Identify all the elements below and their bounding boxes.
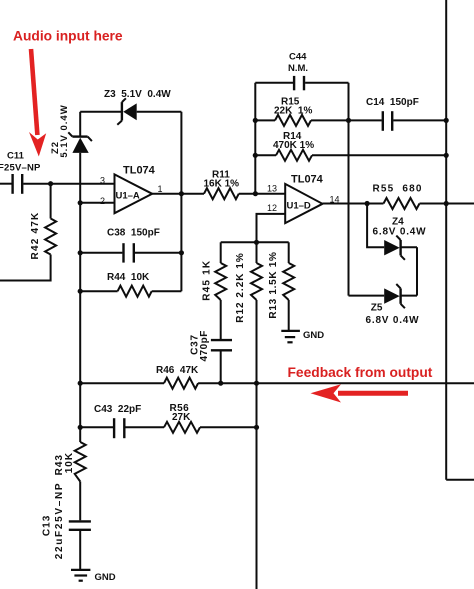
- wire pin1 output: [152, 193, 204, 195]
- svg-text:C38 150pF: C38 150pF: [107, 228, 160, 239]
- node R15 right: [346, 118, 351, 123]
- node R14 right: [444, 153, 449, 158]
- node R46 left: [78, 381, 83, 386]
- svg-text:Audio input here: Audio input here: [13, 29, 123, 44]
- svg-text:TL074: TL074: [123, 165, 156, 177]
- resistor R13: [268, 242, 294, 331]
- left bus main: [79, 153, 81, 442]
- red annotation: Feedback from output: [288, 365, 433, 380]
- svg-text:22K 1%: 22K 1%: [274, 106, 312, 117]
- svg-text:22uF25V–NP: 22uF25V–NP: [54, 482, 65, 560]
- zener Z2: [50, 104, 92, 157]
- svg-text:16K 1%: 16K 1%: [204, 179, 240, 190]
- svg-text:C13: C13: [41, 515, 52, 536]
- capacitor C11: [0, 151, 41, 194]
- svg-text:U1–A: U1–A: [116, 191, 140, 202]
- node R44 left: [78, 289, 83, 294]
- svg-text:470pF: 470pF: [199, 330, 210, 361]
- wire R43 to C13: [79, 482, 81, 521]
- right bus bottom stub: [446, 479, 474, 481]
- node C43 left: [78, 425, 83, 430]
- resistor R55: [373, 184, 474, 210]
- resistor R15: [255, 97, 348, 126]
- bus B vertical (pin12 node) lower: [256, 300, 258, 589]
- resistor R42: [30, 184, 56, 260]
- wire C11 to pin3: [23, 183, 114, 185]
- svg-text:TL074: TL074: [291, 174, 324, 186]
- svg-text:C43 22pF: C43 22pF: [94, 404, 141, 415]
- node pin13 / bus A: [253, 191, 258, 196]
- svg-text:R42 47K: R42 47K: [30, 212, 41, 260]
- wire pin2 from bus: [80, 202, 114, 204]
- node R46/bus B: [254, 381, 259, 386]
- svg-text:Feedback from output: Feedback from output: [288, 365, 433, 380]
- node C14 right: [444, 118, 449, 123]
- node C11/R42 junction: [48, 181, 53, 186]
- left bus (inverting node) upper: [79, 112, 81, 137]
- node output/feedback junction: [179, 191, 184, 196]
- wire C11 input row left: [0, 183, 12, 185]
- svg-text:6.8V 0.4W: 6.8V 0.4W: [366, 315, 420, 326]
- node pin2 on bus: [78, 200, 83, 205]
- node rail/pin12: [254, 240, 259, 245]
- top loop to output vertical: [137, 111, 182, 113]
- svg-text:R45 1K: R45 1K: [201, 260, 212, 301]
- svg-text:10K: 10K: [64, 452, 75, 473]
- right bus vertical: [445, 0, 447, 480]
- resistor R44: [80, 272, 181, 297]
- node C37 bottom: [218, 381, 223, 386]
- node pin14/Z4: [365, 201, 370, 206]
- node R55 right: [444, 201, 449, 206]
- resistor R12: [235, 252, 262, 322]
- resistor R11: [204, 170, 240, 200]
- resistor R56: [125, 403, 256, 433]
- resistor R45: [201, 242, 226, 339]
- capacitor C44: [255, 52, 348, 91]
- wire Z4-Z5 link: [416, 247, 418, 295]
- svg-text:3: 3: [100, 176, 105, 186]
- node R56/bus B: [254, 425, 259, 430]
- node R14 left: [253, 153, 258, 158]
- svg-text:12: 12: [267, 203, 277, 213]
- svg-text:R44 10K: R44 10K: [107, 272, 150, 283]
- red arrow to input: [29, 49, 46, 157]
- node C38 right: [179, 250, 184, 255]
- wire R42 bottom to left edge: [0, 255, 51, 281]
- capacitor C43: [80, 404, 141, 438]
- node C38 left: [78, 250, 83, 255]
- svg-text:470K 1%: 470K 1%: [273, 140, 314, 151]
- top clamp loop wire: [80, 111, 122, 113]
- svg-text:Z5: Z5: [371, 303, 383, 314]
- middle bus vertical: [348, 83, 350, 296]
- svg-text:R55 680: R55 680: [373, 184, 423, 195]
- svg-text:GND: GND: [95, 572, 116, 583]
- red arrow feedback: [311, 384, 409, 402]
- svg-text:GND: GND: [303, 330, 324, 341]
- bus A vertical (pin13 node): [254, 83, 256, 194]
- resistor R43: [54, 442, 86, 482]
- wire pin12: [257, 214, 286, 263]
- svg-text:C14 150pF: C14 150pF: [366, 97, 419, 108]
- zener Z5: [349, 284, 420, 326]
- zener Z4: [367, 204, 426, 260]
- svg-text:uF25V–NP: uF25V–NP: [0, 163, 41, 174]
- svg-text:R12 2.2K 1%: R12 2.2K 1%: [235, 252, 246, 322]
- svg-text:13: 13: [267, 184, 277, 194]
- svg-text:2: 2: [100, 196, 105, 206]
- capacitor C14: [349, 97, 447, 131]
- capacitor C37: [189, 330, 232, 383]
- rail to R45/R13: [221, 241, 289, 243]
- wire pin14 output: [323, 203, 384, 205]
- svg-text:C11: C11: [7, 151, 25, 162]
- svg-text:Z3 5.1V 0.4W: Z3 5.1V 0.4W: [104, 89, 171, 100]
- red annotation: Audio input here: [13, 29, 123, 44]
- output vertical wire: [180, 112, 182, 291]
- resistor R14: [255, 131, 446, 161]
- svg-text:R13 1.5K 1%: R13 1.5K 1%: [268, 251, 279, 318]
- svg-text:6.8V 0.4W: 6.8V 0.4W: [373, 226, 427, 237]
- svg-text:N.M.: N.M.: [288, 63, 308, 74]
- wire R11 to pin13: [239, 193, 285, 195]
- op-amp U1-D: [267, 174, 340, 224]
- svg-text:27K: 27K: [172, 412, 191, 423]
- capacitor C38: [80, 228, 181, 263]
- ground GND1: [281, 330, 324, 343]
- capacitor C13: [41, 482, 91, 570]
- svg-text:R46 47K: R46 47K: [156, 365, 199, 376]
- ground GND2: [71, 570, 116, 583]
- svg-text:1: 1: [158, 184, 163, 194]
- svg-text:C44: C44: [289, 52, 307, 63]
- zener Z3: [104, 89, 171, 125]
- svg-text:5.1V 0.4W: 5.1V 0.4W: [59, 104, 70, 157]
- node R15 left: [253, 118, 258, 123]
- resistor R46: [80, 365, 474, 389]
- svg-text:U1–D: U1–D: [287, 201, 311, 212]
- op-amp U1-A: [100, 165, 163, 214]
